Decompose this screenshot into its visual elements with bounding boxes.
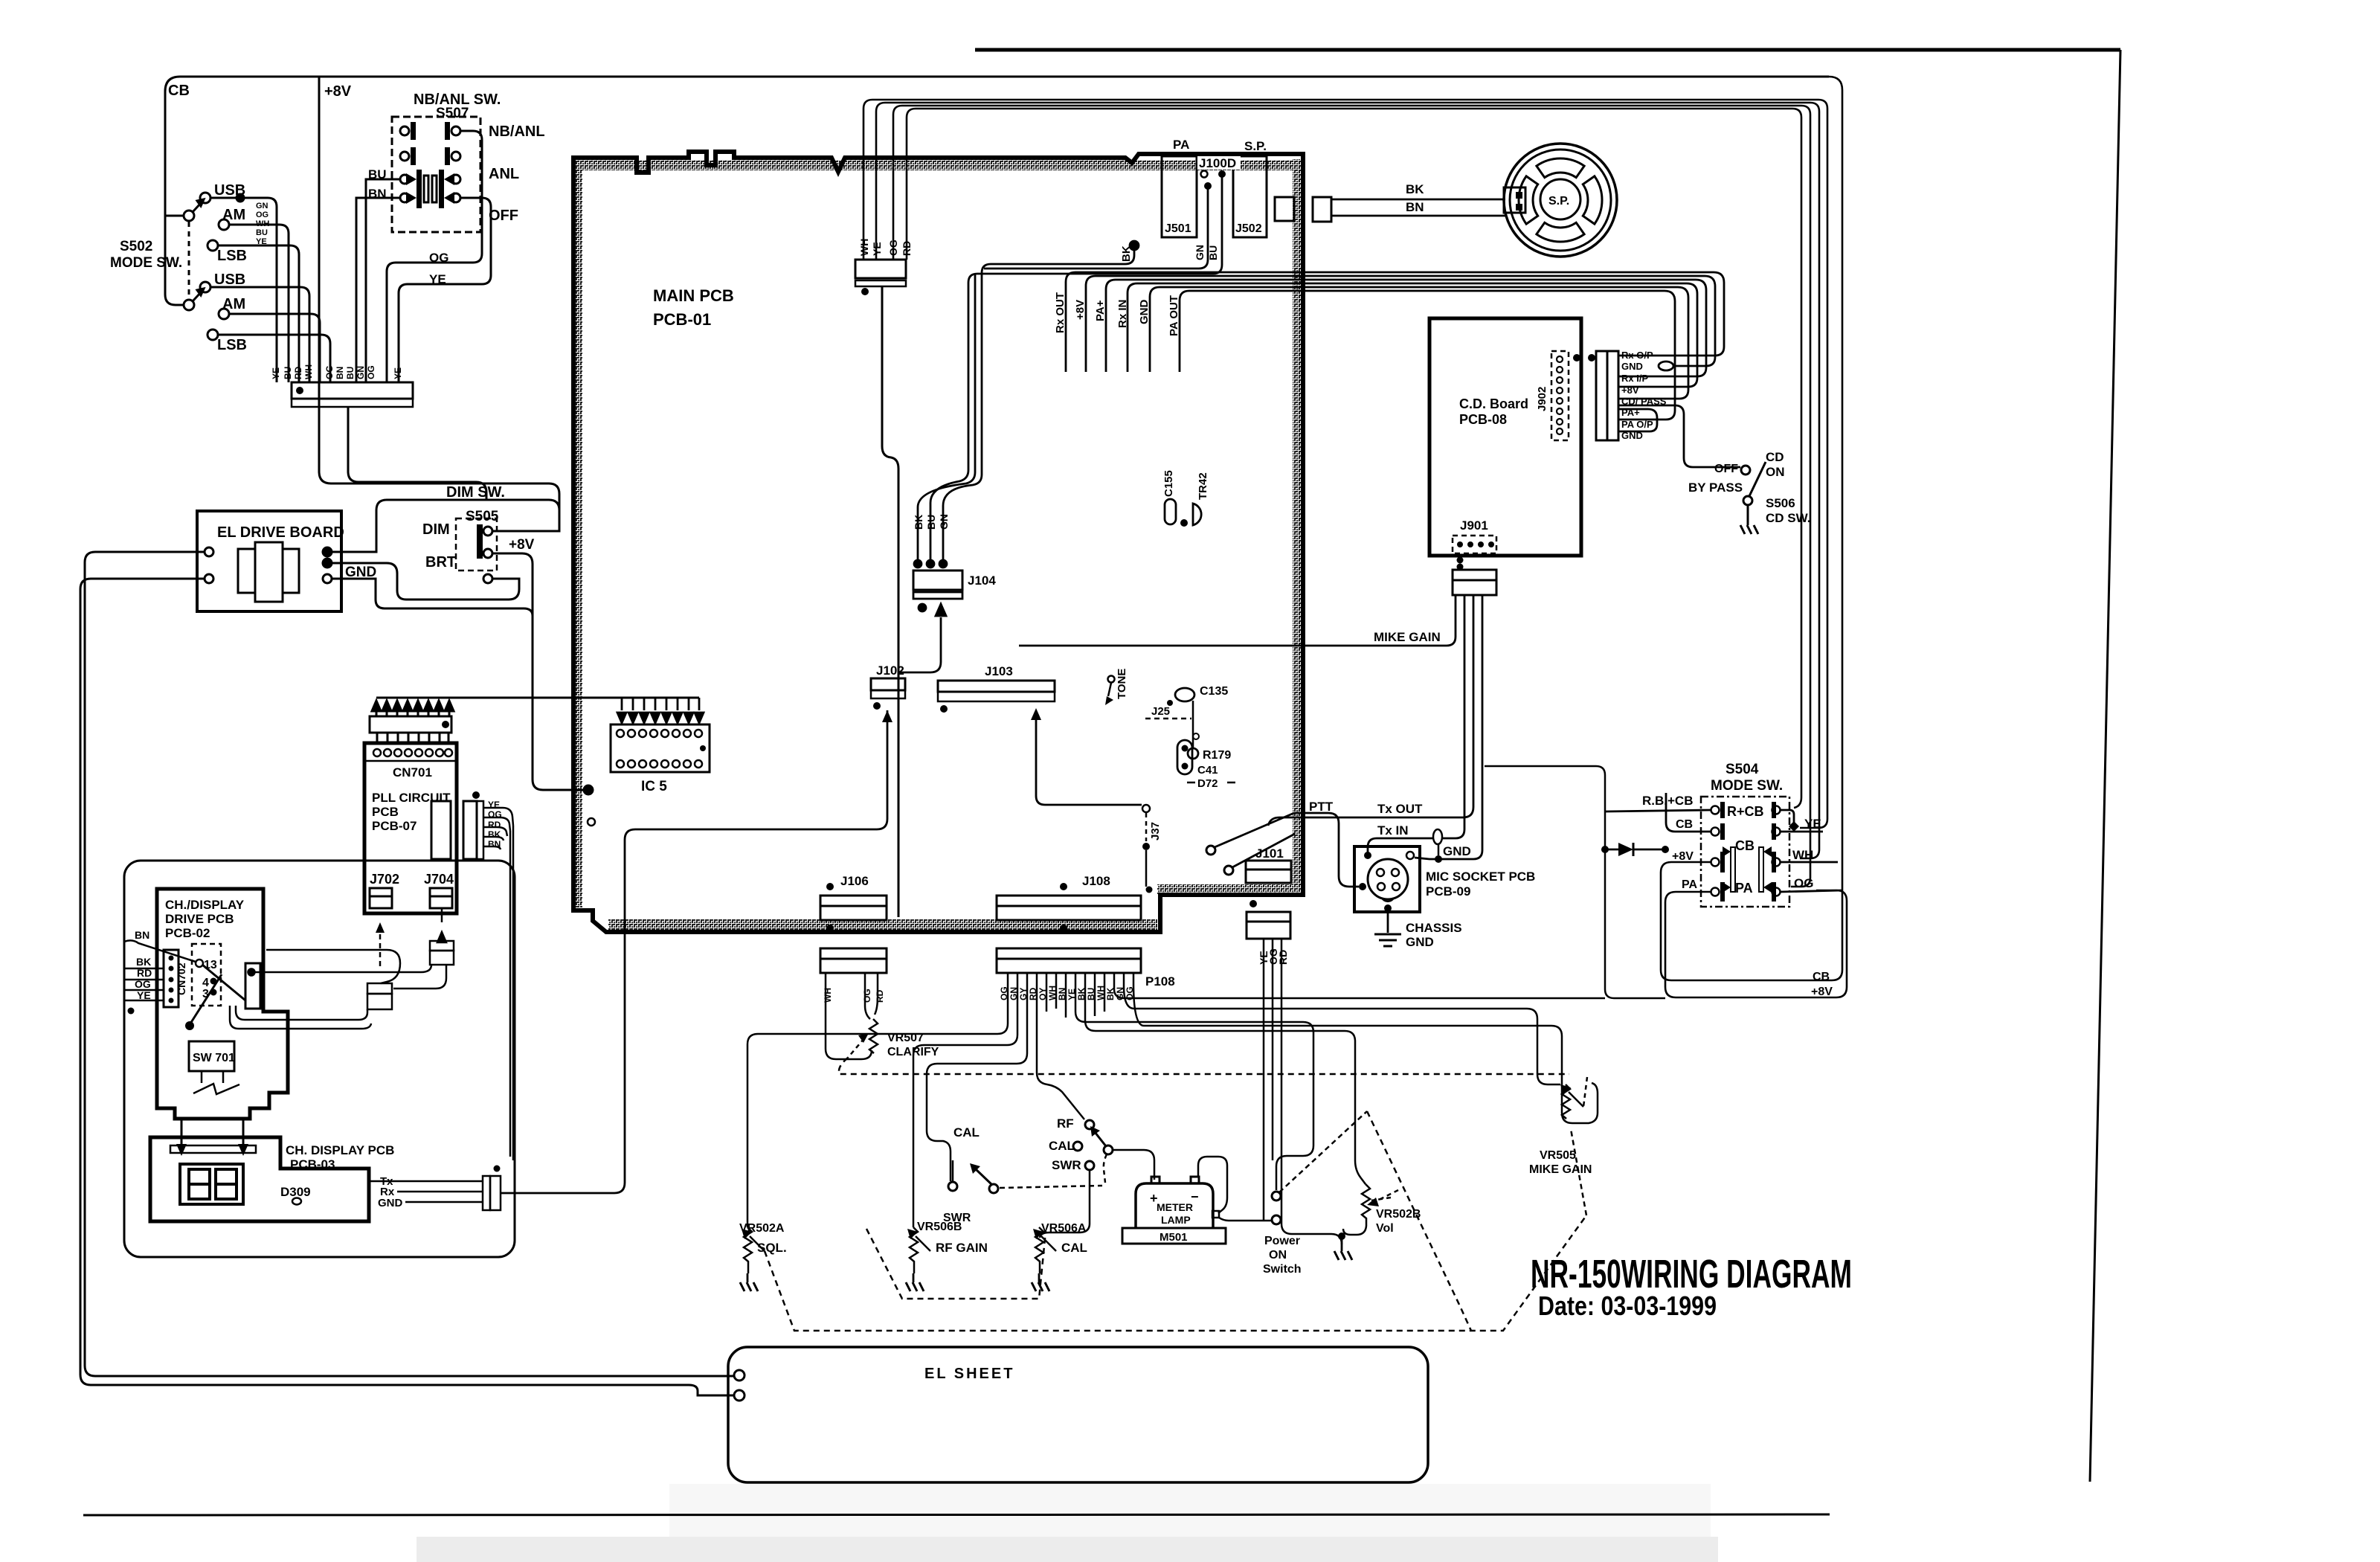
- svg-text:J102: J102: [876, 663, 904, 678]
- svg-text:YE: YE: [393, 367, 403, 379]
- svg-text:NR-150WIRING DIAGRAM: NR-150WIRING DIAGRAM: [1531, 1252, 1852, 1296]
- wire OFF output (YE): [399, 198, 491, 382]
- wire: right page border: [2090, 50, 2120, 1482]
- SWR wire down to VR506A: [1040, 1170, 1090, 1238]
- capacitor C155: [1165, 499, 1176, 524]
- wire: page top border line: [975, 48, 2120, 52]
- svg-text:J501: J501: [1165, 222, 1191, 235]
- display assembly container box: [124, 861, 515, 1257]
- svg-text:GND: GND: [378, 1197, 403, 1209]
- svg-text:RD: RD: [293, 366, 303, 379]
- svg-text:GND: GND: [345, 565, 376, 580]
- svg-text:J901: J901: [1460, 518, 1488, 533]
- S505 contact bar: [477, 524, 483, 559]
- tiny pin labels above connector: [271, 364, 403, 379]
- CH./DISPLAY DRIVE PCB PCB-02 outline: [157, 889, 288, 1119]
- svg-text:BY PASS: BY PASS: [1688, 481, 1743, 495]
- svg-text:CH. DISPLAY PCB: CH. DISPLAY PCB: [286, 1143, 394, 1157]
- inner dashed trapezoid: [866, 1229, 1046, 1299]
- pivot wire to meter +: [1113, 1150, 1154, 1180]
- svg-text:RD: RD: [1277, 950, 1289, 965]
- svg-text:GND: GND: [1138, 300, 1151, 325]
- svg-text:J37: J37: [1149, 822, 1162, 841]
- connectors J106 J108 P108: [820, 874, 1175, 989]
- svg-text:CD SW.: CD SW.: [1766, 511, 1810, 525]
- BK BN wires to speaker: [1331, 199, 1505, 216]
- svg-text:R179: R179: [1203, 749, 1231, 762]
- svg-text:PCB: PCB: [372, 805, 399, 819]
- svg-text:MAIN PCB: MAIN PCB: [653, 286, 734, 305]
- svg-text:CN702: CN702: [176, 962, 187, 995]
- CH. DISPLAY PCB PCB-03: [150, 710, 887, 1221]
- S507 dashed body: [392, 117, 480, 232]
- Tx Rx GND wires to connector: [369, 1176, 501, 1210]
- fan wires from P108 to bottom-left controls: [747, 973, 1133, 1227]
- switch bars: [1720, 802, 1776, 901]
- capacitor C135: [1175, 688, 1194, 701]
- outer rounded container box: [124, 861, 515, 1257]
- wire EL drive to EL SHEET pin 2: [80, 579, 733, 1395]
- speaker S.P.: [1275, 144, 1617, 257]
- svg-text:C.D. Board: C.D. Board: [1459, 396, 1528, 411]
- svg-text:MIKE GAIN: MIKE GAIN: [1529, 1163, 1592, 1176]
- transformer symbol: [238, 549, 299, 593]
- mode switch S504: [1485, 762, 1842, 998]
- svg-text:PA O/P: PA O/P: [1621, 419, 1653, 430]
- speaker outer ring: [1504, 144, 1617, 257]
- wire BU to harness: [366, 179, 400, 382]
- svg-text:USB: USB: [214, 271, 245, 288]
- svg-text:+8V: +8V: [1811, 986, 1833, 998]
- S502 harness connector: [292, 382, 413, 399]
- svg-text:P108: P108: [1145, 974, 1175, 989]
- svg-text:PCB-08: PCB-08: [1459, 412, 1507, 427]
- svg-text:S507: S507: [436, 106, 469, 121]
- svg-text:OG: OG: [256, 210, 268, 219]
- meter selector switches CAL/RF/SWR: [943, 1116, 1154, 1238]
- svg-text:S504: S504: [1725, 762, 1759, 777]
- svg-text:Rx OUT: Rx OUT: [1054, 292, 1067, 333]
- svg-text:CAL: CAL: [1049, 1139, 1075, 1153]
- svg-text:VR506B: VR506B: [917, 1221, 962, 1233]
- stems into PCB: [377, 733, 448, 743]
- PTT wire to mic: [1294, 813, 1359, 887]
- svg-text:GN: GN: [356, 366, 366, 379]
- svg-text:OG: OG: [366, 365, 376, 379]
- transistor TR42: [1193, 504, 1201, 525]
- arrow up into J104: [898, 617, 941, 672]
- tiny wire color labels on left wires: [256, 202, 269, 246]
- svg-text:RD: RD: [875, 989, 885, 1003]
- connector CN702: [164, 950, 178, 1007]
- svg-text:BN: BN: [1406, 200, 1424, 214]
- svg-text:S.P.: S.P.: [1244, 139, 1267, 153]
- svg-text:ON: ON: [1766, 465, 1785, 479]
- svg-text:C155: C155: [1162, 470, 1175, 497]
- speaker connector on PCB edge: [1275, 197, 1294, 221]
- svg-text:PA: PA: [1735, 881, 1753, 896]
- main PCB PCB-01 outline: [571, 152, 1303, 932]
- svg-text:WH: WH: [256, 219, 269, 228]
- svg-text:Rx O/P: Rx O/P: [1621, 350, 1653, 361]
- IC5 arrows from bus: [617, 698, 704, 723]
- svg-text:MODE SW.: MODE SW.: [1711, 778, 1783, 794]
- wire PA loop (S504 PA row to OG output): [1665, 890, 1847, 997]
- wires down to power/vol area: [1075, 1012, 1366, 1190]
- potentiometers VR502A VR506B VR506A VR502B VR505: [739, 1077, 1592, 1291]
- svg-text:R+CB: R+CB: [1727, 804, 1764, 819]
- S504 dashed body: [1701, 797, 1789, 907]
- IC5 DIP: [611, 724, 710, 772]
- svg-text:J502: J502: [1235, 222, 1262, 235]
- meter lamp M501: [1122, 1157, 1272, 1244]
- diode: [1618, 843, 1633, 856]
- long wires from P108 right to VR505 and +8V line: [1114, 983, 1605, 1123]
- svg-text:C135: C135: [1200, 685, 1228, 698]
- svg-text:GND: GND: [1443, 844, 1471, 858]
- svg-text:J103: J103: [985, 664, 1013, 678]
- left contacts: [1711, 806, 1781, 896]
- wire WH from top connector to right side: [863, 100, 1827, 828]
- svg-text:PLL CIRCUIT: PLL CIRCUIT: [372, 791, 451, 805]
- NB/ANL SW. S507 labels: [368, 91, 545, 286]
- LED D309: [292, 1198, 301, 1205]
- svg-text:BK: BK: [136, 956, 151, 968]
- wire +8V feed with diode to R.B.+CB: [1485, 766, 1665, 998]
- svg-text:C41: C41: [1197, 764, 1218, 777]
- svg-text:DRIVE PCB: DRIVE PCB: [165, 912, 234, 926]
- svg-text:R.B.+CB: R.B.+CB: [1642, 794, 1693, 808]
- J106 lower connector: [820, 948, 887, 959]
- svg-text:YE: YE: [1804, 817, 1821, 831]
- svg-text:GND: GND: [1621, 361, 1643, 372]
- TONE test point: [1108, 676, 1115, 683]
- svg-text:SW 701: SW 701: [193, 1052, 235, 1064]
- S507 pin NB/ANL row: [400, 126, 409, 135]
- svg-text:GN: GN: [1194, 245, 1206, 260]
- svg-text:LSB: LSB: [217, 337, 247, 353]
- svg-text:CHASSIS: CHASSIS: [1406, 921, 1462, 935]
- svg-text:PA: PA: [1682, 878, 1697, 891]
- diode feed: [1485, 766, 1665, 998]
- CN701 arrows up: [372, 701, 454, 716]
- svg-text:METER: METER: [1157, 1201, 1193, 1213]
- svg-text:RD: RD: [901, 241, 913, 256]
- jumper J37: [1142, 805, 1150, 812]
- svg-text:EL DRIVE BOARD: EL DRIVE BOARD: [217, 524, 344, 541]
- wire NB/ANL output (OG): [387, 131, 482, 382]
- wire: bottom border line: [83, 1514, 1830, 1515]
- svg-text:OG: OG: [862, 989, 872, 1003]
- wires from container edge into CN702: [124, 940, 196, 1000]
- dashed from pivot down: [1104, 1154, 1107, 1183]
- ribbon loops to J702/J704 connectors: [230, 908, 454, 1029]
- NB/ANL switch S507: [356, 91, 545, 382]
- svg-text:Rx I/P: Rx I/P: [1621, 373, 1648, 384]
- wire CB feed down right side to S504 +8V row: [1661, 77, 1842, 980]
- svg-text:BK: BK: [1120, 245, 1133, 262]
- middle switch elements (right): [439, 170, 444, 208]
- svg-text:PCB-09: PCB-09: [1426, 884, 1470, 899]
- S502 MODE SW labels: [110, 182, 247, 353]
- svg-text:BK: BK: [488, 829, 501, 840]
- main PCB PCB-01 hatched border band: [573, 159, 1302, 925]
- wire DIM: [332, 500, 559, 552]
- harness connector below S502: [271, 364, 486, 500]
- capacitor C41 / diode D72: [1177, 740, 1192, 774]
- svg-text:PA+: PA+: [1094, 300, 1107, 321]
- svg-text:EL SHEET: EL SHEET: [924, 1366, 1014, 1382]
- svg-text:SWR: SWR: [1052, 1158, 1081, 1172]
- mode switch S502: [110, 182, 330, 382]
- svg-text:CD: CD: [1766, 450, 1784, 464]
- MIC socket / J101 / PTT zone: [1019, 595, 1535, 965]
- arrows to PCB-03: [181, 1119, 183, 1145]
- svg-text:J704: J704: [424, 872, 454, 887]
- svg-text:CB: CB: [168, 83, 190, 99]
- svg-text:S.P.: S.P.: [1548, 195, 1569, 208]
- ganged link S502: [188, 222, 190, 300]
- EL drive left pins: [205, 547, 213, 556]
- svg-text:+8V: +8V: [1672, 850, 1694, 863]
- svg-text:WH: WH: [858, 239, 870, 256]
- J106 harness WH OG RD: [823, 988, 885, 1003]
- svg-text:MIC SOCKET PCB: MIC SOCKET PCB: [1426, 870, 1535, 884]
- CD switch S506: [1618, 405, 1810, 534]
- PLL circuit PCB-07 with CN701: [364, 698, 699, 1160]
- METER LAMP M501: [1136, 1183, 1213, 1228]
- svg-text:OFF: OFF: [489, 208, 518, 224]
- svg-text:BRT: BRT: [425, 554, 456, 571]
- wire harness to DIM SW: [348, 407, 486, 500]
- svg-text:Date: 03-03-1999: Date: 03-03-1999: [1538, 1291, 1717, 1321]
- S505 dashed body: [456, 518, 497, 571]
- svg-text:S505: S505: [466, 509, 499, 524]
- speaker terminal tab: [1504, 187, 1525, 213]
- outer dashed trapezoid: [765, 1215, 1586, 1331]
- wires from J100D down-left + horizontal runs: [588, 818, 595, 826]
- switch S502 lower: USB contact: [200, 282, 210, 292]
- selector lever: [202, 965, 245, 1000]
- wire bus above CN701: [376, 697, 699, 699]
- lamp loop wire: [1198, 1157, 1227, 1213]
- svg-text:GND: GND: [1406, 935, 1434, 949]
- side connector with YE OG RD BK BN leads: [463, 801, 477, 859]
- wire OG: [893, 106, 1810, 887]
- P108: [997, 948, 1141, 959]
- small parts C155 TR42 TONE C135 J25 R179 C41 D72 J37: [1105, 470, 1235, 893]
- CH./DISPLAY DRIVE PCB PCB-02: [124, 889, 454, 1156]
- svg-text:OFF: OFF: [1714, 463, 1738, 475]
- svg-text:LSB: LSB: [217, 248, 247, 264]
- svg-text:TONE: TONE: [1116, 669, 1128, 699]
- left side wires: [1605, 793, 1711, 832]
- Power ON Switch: [1272, 1192, 1281, 1201]
- svg-text:BN: BN: [135, 929, 149, 941]
- svg-text:YE: YE: [256, 237, 267, 246]
- wire labels below P108: [999, 986, 1135, 1000]
- svg-text:S506: S506: [1766, 496, 1795, 510]
- svg-text:WH: WH: [303, 364, 314, 379]
- svg-text:OG: OG: [324, 365, 335, 379]
- svg-text:J101: J101: [1255, 846, 1284, 861]
- connector J104 with BK BU GN leads: [898, 176, 1222, 672]
- wire: CB supply rail (top + left edge of CB box): [165, 77, 1829, 305]
- svg-text:DIM: DIM: [422, 521, 450, 538]
- svg-text:PTT: PTT: [1309, 800, 1334, 814]
- MIC SOCKET PCB PCB-09: [1354, 846, 1420, 912]
- connector CN701 bar: [370, 716, 451, 733]
- svg-text:RF: RF: [1057, 1116, 1074, 1131]
- connectors J501 J502 J100D: [1120, 138, 1267, 262]
- power lever dashes down to bottom: [1367, 1111, 1471, 1331]
- svg-text:D309: D309: [280, 1185, 311, 1199]
- wire YE: [876, 103, 1819, 858]
- wire +8V to main PCB: [492, 553, 586, 790]
- svg-text:PCB-07: PCB-07: [372, 819, 416, 833]
- svg-text:BU: BU: [345, 367, 356, 379]
- wire Tx up to J102: [501, 710, 887, 1193]
- PTT contacts: [1206, 846, 1215, 855]
- svg-text:J106: J106: [840, 874, 869, 888]
- svg-text:OG: OG: [1794, 876, 1813, 890]
- IC5: [611, 698, 710, 794]
- svg-text:J902: J902: [1536, 387, 1548, 411]
- svg-text:PCB-01: PCB-01: [653, 310, 711, 329]
- svg-text:GN: GN: [256, 202, 268, 210]
- svg-text:J100D: J100D: [1199, 156, 1236, 170]
- svg-text:YE: YE: [271, 367, 281, 379]
- svg-text:S502: S502: [120, 239, 152, 254]
- wire RD: [907, 109, 1801, 808]
- EL DRIVE BOARD box: [197, 511, 341, 611]
- connector WH YE OG RD on main PCB top: [855, 239, 913, 917]
- Power ON Switch: [1263, 1111, 1367, 1276]
- svg-text:+8V: +8V: [324, 83, 352, 100]
- right side YE junction: [1781, 810, 1794, 828]
- wire: +8V rail from top: [319, 77, 559, 530]
- svg-text:RF GAIN: RF GAIN: [936, 1241, 988, 1255]
- svg-text:J104: J104: [968, 573, 996, 588]
- svg-text:13: 13: [204, 959, 217, 971]
- connector J902: [1551, 351, 1569, 440]
- svg-text:PA: PA: [1173, 138, 1189, 152]
- svg-text:CAL: CAL: [953, 1125, 980, 1140]
- svg-text:PCB-02: PCB-02: [165, 926, 210, 940]
- wires Tx Rx GND: [369, 1181, 483, 1202]
- J101 YE OG RD wires down: [1264, 939, 1342, 1244]
- svg-text:+8V: +8V: [509, 537, 535, 553]
- svg-text:M501: M501: [1160, 1231, 1188, 1244]
- P108 harness wires: [747, 939, 1605, 1260]
- svg-text:CH./DISPLAY: CH./DISPLAY: [165, 898, 245, 912]
- svg-text:ON: ON: [1269, 1249, 1287, 1262]
- svg-text:PCB-03: PCB-03: [290, 1157, 335, 1171]
- svg-text:J108: J108: [1082, 874, 1110, 888]
- DIM switch S505: [345, 484, 535, 583]
- svg-text:WH: WH: [823, 988, 833, 1003]
- wires Rx OUT +8V PA+ Rx IN GND PA OUT to J902: [1054, 272, 1724, 431]
- EL SHEET panel: [728, 1347, 1428, 1482]
- svg-text:CB: CB: [1676, 818, 1693, 831]
- svg-text:CB: CB: [1735, 838, 1755, 853]
- svg-text:NB/ANL: NB/ANL: [489, 123, 545, 140]
- contact box pins 13/4/3: [192, 944, 221, 1006]
- EL drive right pins: [323, 547, 332, 556]
- svg-text:YE: YE: [137, 989, 151, 1001]
- svg-text:PA+: PA+: [1621, 407, 1640, 418]
- svg-text:BU: BU: [1207, 245, 1219, 260]
- svg-text:MIKE GAIN: MIKE GAIN: [1374, 630, 1441, 644]
- svg-text:LAMP: LAMP: [1161, 1214, 1191, 1226]
- S507 contact bars: [416, 170, 422, 208]
- J104 connector with BK BU GN wires: [913, 514, 950, 530]
- seven-segment display: [180, 1164, 243, 1204]
- connector J702: [370, 888, 392, 896]
- switch SW701: [189, 1041, 234, 1071]
- svg-text:BU: BU: [256, 228, 268, 237]
- wire GND: [332, 579, 533, 616]
- svg-text:OG: OG: [887, 240, 899, 256]
- svg-text:TR42: TR42: [1197, 472, 1209, 500]
- svg-text:Tx IN: Tx IN: [1377, 823, 1409, 838]
- svg-text:SQL.: SQL.: [757, 1241, 787, 1255]
- svg-text:YE: YE: [871, 242, 883, 256]
- svg-text:+8V: +8V: [1074, 300, 1087, 320]
- dashed gang linkage outlines: [765, 1111, 1586, 1331]
- svg-text:BK: BK: [1406, 182, 1424, 196]
- svg-text:+8V: +8V: [1621, 385, 1639, 396]
- junction dot: [237, 194, 244, 202]
- wire USB to harness: [210, 198, 277, 382]
- middle poles with triangles: [1731, 847, 1735, 892]
- connectors J102 and J103: [871, 663, 1142, 805]
- svg-text:WH: WH: [1792, 848, 1813, 862]
- svg-text:CAL: CAL: [1061, 1241, 1087, 1255]
- svg-text:GND: GND: [1621, 430, 1643, 441]
- switch S502 upper: USB contact: [200, 193, 210, 203]
- svg-text:J702: J702: [370, 872, 399, 887]
- potentiometer VR507 CLARIFY: [869, 1019, 878, 1053]
- WH YE OG RD connector at top of main PCB: [855, 260, 906, 278]
- title block: [1531, 1252, 1852, 1321]
- wire EL drive to EL SHEET pin 1: [85, 552, 733, 1376]
- svg-text:VR506A: VR506A: [1041, 1222, 1087, 1235]
- svg-text:CN701: CN701: [393, 765, 432, 780]
- Rx OUT +8V PA+ Rx IN GND PA OUT stubs and bundle to J902: [1054, 292, 1180, 336]
- svg-text:CB: CB: [1813, 971, 1830, 983]
- svg-text:RD: RD: [488, 820, 501, 830]
- svg-text:J25: J25: [1151, 705, 1170, 718]
- wire lower USB to harness: [210, 287, 309, 382]
- three feed wires from above: [943, 250, 1134, 562]
- svg-text:Vol: Vol: [1376, 1222, 1394, 1235]
- resistor R179: [1188, 748, 1198, 759]
- PLL CIRCUIT PCB PCB-07 body: [364, 743, 457, 913]
- chassis ground: [1387, 912, 1389, 933]
- svg-text:BN: BN: [335, 367, 345, 379]
- wire BN to harness: [356, 198, 400, 382]
- svg-text:DIM SW.: DIM SW.: [446, 484, 505, 501]
- svg-text:PA OUT: PA OUT: [1168, 295, 1180, 336]
- EL DRIVE BOARD: [197, 511, 344, 611]
- svg-text:MODE SW.: MODE SW.: [110, 255, 182, 271]
- wire BRT: [332, 563, 519, 600]
- dashed gang line VR507 to VR505: [839, 1058, 1569, 1074]
- svg-text:ANL: ANL: [489, 166, 519, 182]
- svg-text:Switch: Switch: [1263, 1263, 1302, 1276]
- svg-text:D72: D72: [1197, 777, 1218, 790]
